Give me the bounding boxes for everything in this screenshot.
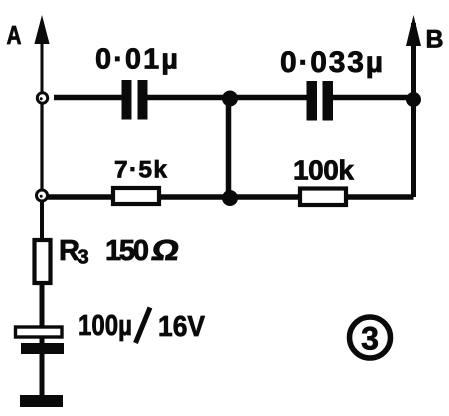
svg-text:100k: 100k (293, 155, 354, 186)
svg-text:A: A (7, 20, 22, 50)
svg-text:0·01µ: 0·01µ (95, 44, 178, 76)
svg-text:3: 3 (361, 321, 379, 357)
svg-text:7·5k: 7·5k (114, 157, 167, 184)
svg-text:150: 150 (105, 235, 149, 267)
svg-text:100µ: 100µ (78, 310, 132, 342)
svg-text:B: B (426, 26, 444, 54)
svg-text:16V: 16V (158, 311, 206, 343)
svg-text:0·033µ: 0·033µ (280, 46, 383, 79)
svg-text:3: 3 (78, 247, 89, 269)
svg-text:Ω: Ω (149, 235, 182, 267)
